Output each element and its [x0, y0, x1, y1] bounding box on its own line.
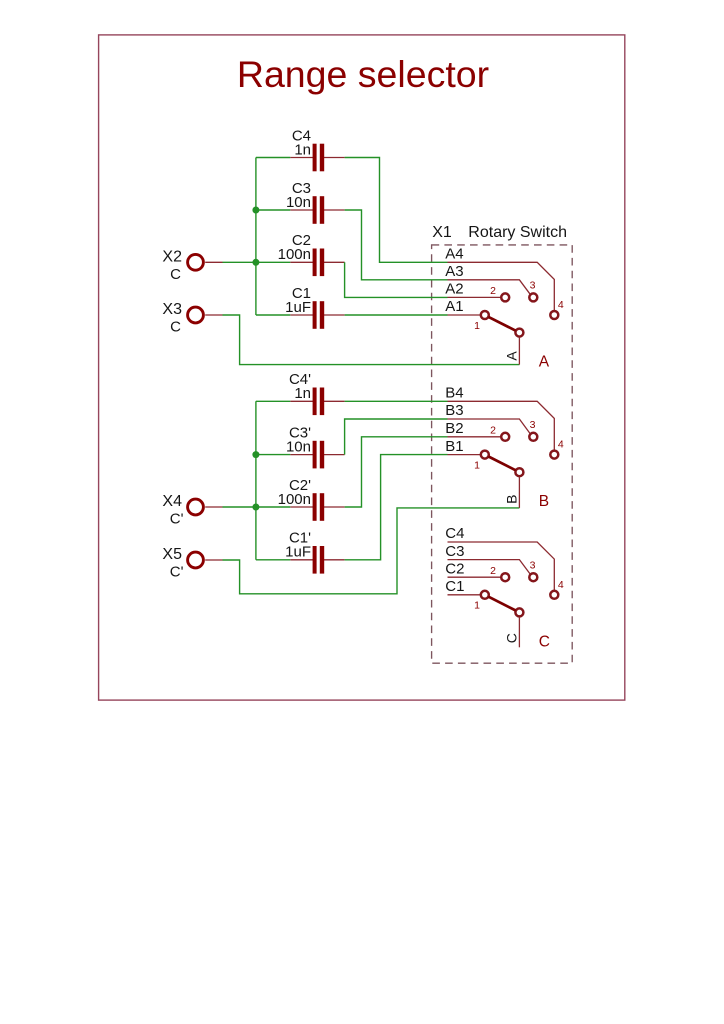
- wire bus A vertical: [255, 158, 257, 316]
- svg-text:2: 2: [490, 425, 496, 437]
- capacitor C2': [290, 493, 344, 521]
- svg-text:1: 1: [474, 600, 480, 612]
- switch B common pin wire: [518, 477, 520, 508]
- switch B pin B4 wire: [448, 401, 555, 450]
- wire C1' left: [256, 559, 290, 561]
- pin wire X4: [205, 506, 222, 508]
- wire X3 to switch A common: [223, 315, 520, 365]
- switch A lever: [489, 317, 516, 331]
- svg-text:1: 1: [474, 460, 480, 472]
- svg-text:4: 4: [558, 439, 564, 451]
- switch B contact 1: [481, 451, 489, 459]
- wire C2 to A2: [345, 262, 448, 297]
- connector X3: [188, 307, 204, 323]
- wire C4 left: [256, 157, 290, 159]
- svg-text:A2: A2: [445, 281, 463, 298]
- switch A pin A1 wire: [448, 314, 481, 316]
- wire C2' left: [256, 506, 290, 508]
- svg-text:3: 3: [530, 419, 536, 431]
- svg-text:4: 4: [558, 299, 564, 311]
- wire C2' to B2: [345, 437, 448, 507]
- svg-text:B1: B1: [445, 438, 463, 455]
- switch C pin C1 wire: [448, 594, 481, 596]
- wire C3 to A3: [345, 210, 448, 280]
- switch A common contact: [515, 329, 523, 337]
- svg-text:C': C': [170, 511, 184, 528]
- rotary switch X1 dashed outline: [432, 245, 573, 663]
- svg-text:C3: C3: [445, 543, 464, 560]
- junction bus A / C2: [252, 259, 259, 266]
- svg-text:B4: B4: [445, 385, 463, 402]
- svg-text:100n: 100n: [278, 491, 311, 508]
- svg-text:B: B: [539, 493, 549, 510]
- wire C4' left: [256, 400, 290, 402]
- svg-text:1n: 1n: [294, 141, 311, 158]
- switch A pin A3 wire: [448, 280, 531, 295]
- capacitor C1': [290, 546, 344, 574]
- wire X5 to switch B common: [223, 508, 520, 594]
- svg-text:Rotary Switch: Rotary Switch: [468, 224, 567, 241]
- capacitor C3': [290, 441, 344, 469]
- switch C contact 1: [481, 591, 489, 599]
- junction bus B / C3': [252, 451, 259, 458]
- wire X2 to bus: [223, 261, 256, 263]
- switch A common pin wire: [518, 337, 520, 364]
- svg-text:1uF: 1uF: [285, 299, 311, 316]
- wire C1 to A1: [345, 314, 448, 316]
- switch B pin B3 wire: [448, 419, 531, 434]
- junction bus A / C3: [252, 207, 259, 214]
- switch B contact 4: [550, 451, 558, 459]
- capacitor C4: [290, 144, 344, 172]
- svg-text:10n: 10n: [286, 438, 311, 455]
- wire C3 left: [256, 209, 290, 211]
- svg-text:C: C: [170, 319, 181, 336]
- connector X5: [188, 552, 204, 568]
- svg-text:3: 3: [530, 559, 536, 571]
- switch A pin A2 wire: [448, 296, 501, 298]
- switch B contact 3: [529, 433, 537, 441]
- svg-text:100n: 100n: [278, 246, 311, 263]
- svg-text:X3: X3: [162, 301, 182, 318]
- wire C2 left: [256, 261, 290, 263]
- pin wire X2: [205, 261, 222, 263]
- switch B pin B2 wire: [448, 436, 501, 438]
- svg-text:A: A: [539, 354, 550, 371]
- switch A contact 2: [501, 293, 509, 301]
- svg-text:1uF: 1uF: [285, 544, 311, 561]
- switch C pin C3 wire: [448, 560, 531, 575]
- wire C3' left: [256, 454, 290, 456]
- svg-text:A1: A1: [445, 298, 463, 315]
- switch A contact 1: [481, 311, 489, 319]
- switch C contact 2: [501, 573, 509, 581]
- wire C1 left: [256, 314, 290, 316]
- connector X4: [188, 499, 204, 515]
- wire C4' to B4: [345, 400, 448, 402]
- svg-text:C: C: [539, 633, 550, 650]
- capacitor C3: [290, 196, 344, 224]
- switch A contact 3: [529, 293, 537, 301]
- svg-text:C4: C4: [445, 525, 464, 542]
- junction bus B / C2': [252, 504, 259, 511]
- capacitor C1: [290, 301, 344, 329]
- switch C contact 3: [529, 573, 537, 581]
- svg-text:1n: 1n: [294, 385, 311, 402]
- svg-text:B2: B2: [445, 420, 463, 437]
- wire X4 to bus: [223, 506, 256, 508]
- wire bus B vertical: [255, 401, 257, 560]
- svg-text:B: B: [503, 495, 519, 504]
- svg-text:A4: A4: [445, 246, 463, 263]
- svg-text:3: 3: [530, 280, 536, 292]
- switch C common pin wire: [518, 617, 520, 647]
- svg-text:2: 2: [490, 565, 496, 577]
- pin wire X3: [205, 314, 222, 316]
- svg-text:A: A: [503, 351, 519, 361]
- switch B contact 2: [501, 433, 509, 441]
- switch C pin C2 wire: [448, 576, 501, 578]
- switch B lever: [489, 457, 516, 471]
- svg-text:X1: X1: [432, 224, 452, 241]
- pin wire X5: [205, 559, 222, 561]
- svg-text:X2: X2: [162, 248, 182, 265]
- switch C contact 4: [550, 591, 558, 599]
- svg-text:4: 4: [558, 579, 564, 591]
- svg-text:C: C: [170, 266, 181, 283]
- wire C3' to B3: [345, 419, 448, 455]
- svg-text:C: C: [503, 633, 519, 643]
- wire C1' to B1: [345, 455, 448, 560]
- switch C pin C4 wire: [448, 542, 555, 590]
- svg-text:C2: C2: [445, 560, 464, 577]
- svg-text:X4: X4: [162, 493, 182, 510]
- wire C4 to A4: [345, 158, 448, 263]
- svg-text:B3: B3: [445, 402, 463, 419]
- capacitor C2: [290, 249, 344, 277]
- switch B pin B1 wire: [448, 454, 481, 456]
- switch A pin A4 wire: [448, 262, 555, 310]
- connector X2: [188, 254, 204, 270]
- switch A contact 4: [550, 311, 558, 319]
- switch C lever: [489, 597, 516, 611]
- svg-text:C': C': [170, 564, 184, 581]
- svg-text:10n: 10n: [286, 194, 311, 211]
- switch B common contact: [515, 468, 523, 476]
- svg-text:Range selector: Range selector: [237, 53, 489, 95]
- frame border: [99, 35, 625, 700]
- switch C common contact: [515, 608, 523, 616]
- svg-text:X5: X5: [162, 546, 182, 563]
- svg-text:1: 1: [474, 320, 480, 332]
- svg-text:A3: A3: [445, 263, 463, 280]
- svg-text:C1: C1: [445, 578, 464, 595]
- svg-text:2: 2: [490, 285, 496, 297]
- capacitor C4': [290, 388, 344, 416]
